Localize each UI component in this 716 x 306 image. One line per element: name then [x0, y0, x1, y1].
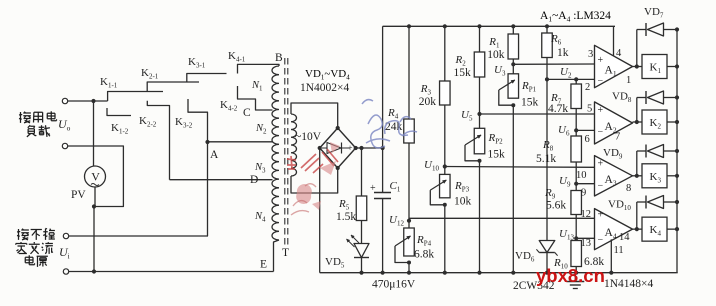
right rail: [676, 30, 678, 273]
zener diode VD6 2CW342: [539, 241, 555, 253]
wire bus to R2: [479, 26, 481, 52]
node U2: [545, 77, 549, 81]
wire Uo top to contact network: [68, 100, 108, 102]
node R5 column top: [359, 146, 363, 150]
wire U9 to A3 pin9: [576, 183, 594, 185]
svg-text:V: V: [91, 170, 100, 184]
wire VD6 to ground bus: [546, 253, 548, 273]
svg-text:+: +: [598, 159, 604, 170]
svg-text:1k: 1k: [557, 47, 569, 59]
resistor R1 10k: [508, 34, 519, 59]
bridge rectifier VD1-VD4 diamond: [320, 128, 356, 168]
node U10: [443, 164, 447, 168]
label 接不稳定交流电源 (unstable AC source): [18, 229, 20, 240]
relay coil K4: [642, 217, 667, 241]
wire U6 to A2 pin6: [576, 129, 594, 131]
node U3: [511, 62, 515, 66]
contact K2-2: [147, 101, 169, 180]
wire tap A to primary: [208, 141, 273, 143]
wire U10 to A3 pin10: [445, 166, 595, 169]
wire VD5 to ground bus: [361, 258, 363, 273]
wire RP1 to ground bus: [512, 105, 514, 273]
svg-text:6: 6: [585, 134, 590, 145]
svg-text:15k: 15k: [454, 67, 472, 79]
svg-text:C: C: [243, 107, 251, 119]
node junction voltmeter top: [91, 99, 95, 103]
svg-text:D: D: [250, 174, 258, 186]
svg-text:+: +: [598, 210, 604, 221]
svg-text:4.7k: 4.7k: [548, 103, 568, 115]
op-amp A2: [595, 102, 633, 144]
wire op-amp output to K2: [633, 121, 643, 123]
wire bus left end down to bridge plus: [382, 26, 384, 148]
svg-text:−: −: [598, 127, 604, 138]
wire ground bus: [320, 272, 676, 274]
resistor R5 1.5k: [356, 196, 367, 221]
terminal Uo top: [62, 98, 67, 103]
svg-text:9: 9: [581, 188, 586, 199]
wire Ui top to node A column: [69, 235, 208, 237]
relay coil K3: [642, 164, 667, 188]
wire bus to R4: [408, 26, 410, 119]
flyback diode VD8: [636, 98, 638, 123]
svg-text:−: −: [598, 180, 604, 191]
svg-text:E: E: [260, 259, 267, 271]
svg-text:5.1k: 5.1k: [536, 153, 556, 165]
wire U2 to A1 pin2: [547, 78, 595, 80]
wire K3 to rail: [667, 175, 677, 177]
wire R8 to U9: [575, 162, 577, 191]
svg-text:5: 5: [587, 104, 592, 115]
wire RP3 to ground bus: [444, 205, 446, 273]
wire Uo bottom via right branch: [68, 146, 124, 207]
wire bus to R6: [546, 26, 548, 33]
bridge vertex dots: [336, 126, 340, 130]
svg-text:A: A: [210, 149, 219, 161]
node U9: [574, 182, 578, 186]
wire U12 to A4 pin12: [409, 217, 595, 219]
svg-text:−: −: [598, 235, 604, 246]
node A: [205, 140, 209, 144]
node U13: [574, 236, 578, 240]
svg-text:10k: 10k: [454, 196, 472, 208]
node voltmeter bottom junction: [92, 204, 96, 208]
wire R9 to U13: [575, 215, 577, 241]
contact K3-1: [187, 74, 227, 83]
resistor R6 1k: [542, 33, 553, 58]
wire E tap down: [274, 240, 280, 272]
resistor R3 20k: [440, 81, 451, 105]
LED VD5: [354, 244, 369, 258]
potentiometer RP4 6.8k: [404, 228, 415, 256]
wire secondary bottom to bridge: [291, 168, 338, 193]
wire R2 to node U5: [479, 77, 481, 128]
wire U2 jog to R7: [575, 79, 577, 84]
contact K3-2: [188, 99, 208, 236]
wire R6 to U2: [546, 58, 548, 80]
svg-text:−: −: [598, 76, 604, 87]
wire down to AC neutral: [93, 207, 95, 272]
node U6: [574, 128, 578, 132]
svg-text:12: 12: [581, 209, 592, 220]
pin 11 wire to ground: [610, 239, 612, 272]
wire U3 to A1 pin3: [513, 63, 594, 65]
svg-text:15k: 15k: [521, 97, 539, 109]
ground symbol: [574, 273, 576, 281]
wire K1 to rail: [667, 66, 677, 68]
wire bridge plus down to C1: [382, 148, 384, 193]
contact K4-2: [238, 86, 273, 110]
resistor R9 5.6k: [571, 191, 582, 215]
transformer secondary winding ~10V: [291, 114, 297, 176]
wire op-amp output to K1: [633, 66, 643, 68]
svg-text:1N4002×4: 1N4002×4: [300, 82, 350, 94]
wire R3 to node U10: [444, 105, 446, 174]
wire U5 to A2 pin5: [480, 113, 595, 115]
bridge inner diode: [327, 143, 341, 154]
wire K2 to rail: [667, 121, 677, 123]
wire AC neutral bottom: [69, 271, 274, 273]
wire secondary top to bridge: [291, 103, 338, 128]
voltmeter PV: [85, 166, 106, 187]
flyback diode VD7: [636, 30, 638, 67]
red stamp marks near bridge: [287, 149, 338, 173]
wire R1 to node U3: [512, 59, 514, 74]
contact K1-1: [108, 92, 163, 102]
wire bridge plus output: [356, 147, 383, 149]
svg-text:1N4148×4: 1N4148×4: [604, 278, 654, 290]
svg-text:1: 1: [626, 75, 631, 86]
op-amp A4: [595, 209, 633, 250]
svg-text:6.8k: 6.8k: [414, 249, 434, 261]
wire B tap to primary top: [274, 64, 280, 66]
wire bus to R3: [444, 26, 446, 81]
flyback diode VD10: [636, 202, 638, 229]
flyback diode VD9: [636, 151, 638, 176]
potentiometer RP3 10k: [440, 174, 451, 197]
svg-text:7: 7: [615, 132, 620, 143]
node on AC neutral: [92, 269, 96, 273]
op-amp A3: [595, 156, 633, 196]
wire plus node down to R5: [361, 148, 363, 196]
wire bus right end down to pin4: [613, 26, 615, 56]
svg-text:470μ16V: 470μ16V: [372, 279, 416, 291]
wire R10 to ground bus: [575, 267, 577, 273]
svg-text:3: 3: [588, 49, 593, 60]
svg-text:+: +: [598, 105, 604, 116]
resistor R7 4.7k: [571, 84, 582, 109]
svg-text:T: T: [282, 247, 289, 259]
wire R5 to VD5: [361, 221, 363, 244]
wire RP4 to ground bus: [408, 263, 410, 273]
contact K2-1: [147, 82, 199, 92]
op-amp A1: [595, 45, 633, 87]
terminal Uo bottom: [62, 143, 67, 148]
resistor R2 15k: [474, 52, 485, 77]
svg-text:10k: 10k: [487, 49, 505, 61]
node U5: [477, 112, 481, 116]
svg-text:2: 2: [585, 82, 590, 93]
wire K4 to rail: [667, 228, 677, 230]
transformer core: [284, 58, 286, 248]
resistor R10 6.8k: [571, 241, 582, 267]
wire R4 to U12 node: [408, 143, 410, 228]
svg-text:+: +: [598, 55, 604, 66]
svg-text:1.5k: 1.5k: [336, 211, 356, 223]
svg-text:ybx8.cn: ybx8.cn: [536, 265, 605, 286]
svg-text:14: 14: [619, 232, 630, 243]
wire bridge minus to ground bus: [319, 148, 321, 273]
wire voltmeter bottom: [94, 187, 96, 207]
wire op-amp output to K4: [633, 228, 643, 230]
wire bus to R1: [512, 26, 514, 34]
svg-text:5.6k: 5.6k: [546, 200, 566, 212]
svg-text:10: 10: [576, 170, 587, 181]
wire voltmeter branch vertical: [93, 101, 95, 166]
wire RP2 to ground bus: [479, 161, 481, 273]
contact K1-2: [107, 108, 131, 116]
svg-text:13: 13: [581, 238, 592, 249]
svg-text:VD1~VD4: VD1~VD4: [305, 68, 350, 82]
svg-text:8: 8: [626, 183, 631, 194]
wire C1 to ground bus: [382, 199, 384, 273]
wire top supply bus: [383, 25, 615, 27]
relay coil K1: [642, 55, 667, 79]
wire tap D to primary: [170, 179, 273, 181]
svg-text:B: B: [275, 52, 283, 64]
blue pen scribble near R4: [362, 100, 417, 148]
wire op-amp output to K3: [633, 175, 643, 177]
svg-text:~10V: ~10V: [295, 131, 322, 143]
svg-text:15k: 15k: [488, 149, 506, 161]
potentiometer RP2 15k: [474, 128, 485, 154]
potentiometer RP1 15k: [508, 74, 519, 98]
resistor R8 5.1k: [571, 136, 582, 162]
svg-text:20k: 20k: [419, 96, 437, 108]
terminal Ui top: [63, 233, 68, 238]
label 接用电负载 (connect load): [20, 112, 22, 123]
terminal Ui bottom: [63, 269, 68, 274]
relay coil K2: [642, 110, 667, 134]
svg-text:+: +: [370, 183, 376, 194]
wire U13 to A4 pin13: [576, 237, 594, 239]
node U12: [407, 219, 411, 223]
transformer T primary winding: [272, 66, 279, 240]
wire zener column from U2: [546, 79, 548, 240]
wire R7 to U6: [575, 109, 577, 137]
contact K4-1: [238, 64, 274, 73]
resistor R4 24k: [404, 119, 415, 143]
capacitor C1 470u16V: [374, 192, 391, 194]
node bridge plus to bus and C1: [381, 146, 385, 150]
svg-text:11: 11: [614, 245, 624, 256]
svg-text:+: +: [348, 143, 353, 153]
svg-text:PV: PV: [71, 189, 86, 201]
